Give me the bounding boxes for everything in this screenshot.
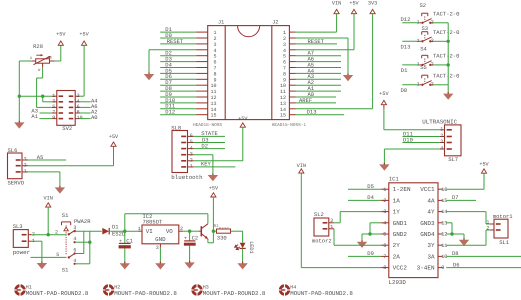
svg-text:SL1: SL1 [499,239,510,246]
svg-text:15: 15 [441,198,447,204]
svg-text:TACT-2-0: TACT-2-0 [433,73,459,80]
svg-text:2: 2 [431,38,434,44]
svg-text:1Y: 1Y [393,209,401,216]
svg-text:D9: D9 [367,250,374,257]
svg-text:2: 2 [190,158,193,164]
svg-text:bluetooth: bluetooth [171,174,202,181]
svg-text:2: 2 [486,225,489,231]
svg-text:+: + [184,236,187,242]
svg-text:1: 1 [440,127,443,133]
svg-text:2: 2 [24,162,27,168]
svg-text:15: 15 [280,113,286,119]
svg-text:5: 5 [56,252,59,258]
svg-text:D13: D13 [401,44,411,51]
svg-text:+5V: +5V [56,32,66,38]
svg-text:MOUNT-PAD-ROUND2.8: MOUNT-PAD-ROUND2.8 [203,290,266,297]
svg-text:A0: A0 [91,114,98,121]
svg-text:C2: C2 [192,235,199,242]
svg-text:1: 1 [417,20,420,26]
svg-text:330: 330 [217,234,227,241]
svg-text:TACT-2-0: TACT-2-0 [433,53,459,60]
svg-text:4: 4 [383,220,386,226]
svg-text:6: 6 [73,247,76,253]
svg-text:A5: A5 [37,154,44,161]
svg-text:2: 2 [383,198,386,204]
svg-text:S1: S1 [62,212,69,219]
svg-text:HEAD15-NOSS-1: HEAD15-NOSS-1 [272,123,307,128]
svg-text:1-2EN: 1-2EN [393,186,411,193]
svg-text:VIN: VIN [44,196,53,202]
svg-text:D12: D12 [401,16,411,23]
svg-text:7: 7 [383,254,386,260]
svg-text:1: 1 [383,187,386,193]
svg-text:15: 15 [210,113,216,119]
svg-text:R28: R28 [33,43,43,50]
svg-text:J1: J1 [218,20,224,26]
svg-text:VO: VO [166,228,173,235]
svg-text:D12: D12 [165,109,175,116]
svg-text:TACT-2-0: TACT-2-0 [433,29,459,36]
svg-text:D4: D4 [367,194,374,201]
svg-text:A1: A1 [31,113,38,120]
svg-text:+5V: +5V [349,1,359,7]
svg-text:14: 14 [441,209,447,215]
svg-text:D6: D6 [453,261,460,268]
svg-text:D7: D7 [452,194,459,201]
svg-text:IC1: IC1 [389,176,400,183]
svg-text:5: 5 [383,232,386,238]
svg-text:C1: C1 [126,237,133,244]
svg-text:4A: 4A [427,197,435,204]
svg-text:PWA2R: PWA2R [74,218,91,225]
svg-text:2A: 2A [393,253,401,260]
svg-text:8: 8 [383,265,386,271]
svg-text:9: 9 [52,115,55,121]
svg-text:D2: D2 [201,142,208,149]
svg-text:motor2: motor2 [312,238,332,245]
svg-text:2: 2 [431,61,434,67]
svg-text:1: 1 [190,164,193,170]
svg-text:13: 13 [441,220,447,226]
svg-text:+5V: +5V [209,185,219,191]
svg-text:SV2: SV2 [62,125,72,132]
svg-text:2Y: 2Y [393,242,401,249]
svg-text:1: 1 [417,38,420,44]
svg-text:+5V: +5V [479,162,489,168]
svg-text:GND4: GND4 [420,231,435,238]
svg-text:+5V: +5V [109,134,119,140]
svg-text:4: 4 [73,258,76,264]
svg-text:3Y: 3Y [427,242,435,249]
svg-text:1A: 1A [393,197,401,204]
svg-text:10: 10 [441,254,447,260]
svg-text:VIN: VIN [297,163,306,169]
svg-text:1: 1 [330,224,333,230]
svg-text:MOUNT-PAD-ROUND2.8: MOUNT-PAD-ROUND2.8 [114,290,177,297]
svg-text:S4: S4 [420,45,427,52]
svg-text:+5V: +5V [238,116,248,122]
svg-text:SL3: SL3 [13,223,23,230]
svg-text:1: 1 [138,226,141,232]
svg-text:power: power [13,249,30,256]
svg-text:2: 2 [55,230,58,236]
svg-text:RESET: RESET [308,38,325,45]
svg-text:4: 4 [440,146,443,152]
svg-text:3: 3 [440,139,443,145]
svg-text:3-4EN: 3-4EN [417,265,435,272]
svg-text:3V3: 3V3 [368,1,377,7]
svg-text:+: + [119,238,122,244]
svg-text:4: 4 [190,145,193,151]
svg-text:4: 4 [73,236,76,242]
svg-text:3: 3 [156,245,159,251]
svg-text:12: 12 [441,232,447,238]
svg-text:S2: S2 [420,2,427,9]
svg-text:2: 2 [431,81,434,87]
svg-text:LED1: LED1 [248,241,254,253]
svg-text:1: 1 [24,169,27,175]
svg-text:D5: D5 [367,183,374,190]
svg-text:GND1: GND1 [393,220,408,227]
svg-text:3: 3 [383,209,386,215]
svg-text:D10: D10 [403,136,413,143]
svg-text:D1: D1 [401,67,408,74]
svg-text:VI: VI [146,228,153,235]
svg-text:SL7: SL7 [448,156,458,163]
svg-text:L293D: L293D [389,279,407,286]
svg-text:11: 11 [441,243,447,249]
svg-text:D8: D8 [452,250,459,257]
svg-text:VCC2: VCC2 [393,265,408,272]
svg-text:VCC1: VCC1 [420,186,435,193]
svg-text:2: 2 [180,226,183,232]
svg-text:2: 2 [431,19,434,25]
svg-text:+5V: +5V [79,32,89,38]
svg-text:AREF: AREF [299,97,312,104]
svg-text:6: 6 [383,243,386,249]
svg-text:S3: S3 [422,25,429,32]
svg-text:9: 9 [441,265,444,271]
svg-text:MOUNT-PAD-ROUND2.8: MOUNT-PAD-ROUND2.8 [290,290,353,297]
svg-text:MOUNT-PAD-ROUND2.8: MOUNT-PAD-ROUND2.8 [26,290,89,297]
svg-text:TACT-2-0: TACT-2-0 [433,11,459,18]
svg-text:SERVO: SERVO [8,180,25,187]
svg-text:RESET: RESET [167,38,184,45]
svg-text:3: 3 [190,151,193,157]
svg-text:16: 16 [441,187,447,193]
svg-text:SL2: SL2 [314,211,324,218]
svg-text:6: 6 [190,133,193,139]
svg-text:3A: 3A [427,253,435,260]
svg-text:4Y: 4Y [427,209,435,216]
svg-text:GND: GND [155,236,166,243]
svg-text:1: 1 [417,62,420,68]
svg-text:1: 1 [417,82,420,88]
svg-text:5: 5 [190,139,193,145]
svg-text:+5V: +5V [379,91,389,97]
svg-text:J2: J2 [272,20,278,26]
svg-text:D0: D0 [401,87,408,94]
svg-text:KEY: KEY [201,161,212,168]
svg-text:GND2: GND2 [393,231,408,238]
svg-text:D13: D13 [307,109,317,116]
svg-text:3: 3 [73,225,76,231]
svg-text:GND3: GND3 [420,220,435,227]
svg-text:VIN: VIN [332,1,341,7]
svg-text:S5: S5 [420,64,427,71]
svg-text:S1: S1 [62,267,69,274]
svg-text:HEAD15-NOSS: HEAD15-NOSS [193,123,222,128]
